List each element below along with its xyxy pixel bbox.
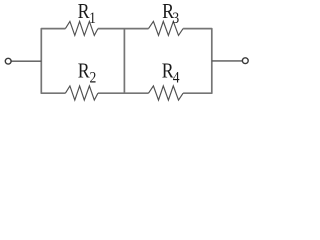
svg-text:R3: R3 (162, 1, 179, 28)
svg-text:R4: R4 (162, 60, 180, 87)
svg-text:R2: R2 (78, 60, 96, 87)
svg-text:R1: R1 (78, 1, 96, 28)
